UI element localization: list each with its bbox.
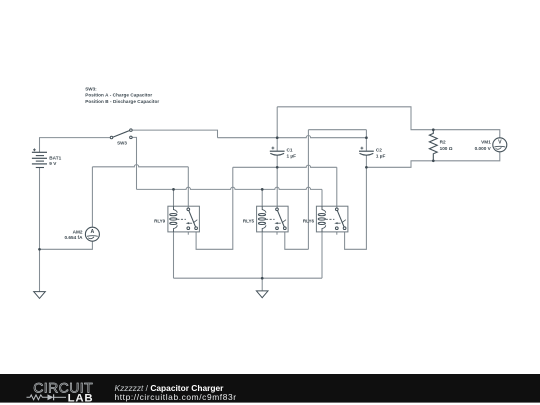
svg-text:Position A - Charge Capacitor: Position A - Charge Capacitor: [85, 93, 152, 98]
svg-text:VM1: VM1: [481, 140, 491, 145]
svg-text:V: V: [498, 140, 502, 146]
svg-text:0.000 V: 0.000 V: [475, 146, 492, 151]
svg-text:AM2: AM2: [73, 229, 83, 234]
svg-text:R2: R2: [440, 140, 446, 145]
svg-text:Position B - Discharge Capacit: Position B - Discharge Capacitor: [85, 99, 159, 104]
svg-text:RLY5: RLY5: [243, 218, 255, 223]
svg-text:1 µF: 1 µF: [376, 153, 386, 158]
svg-text:A: A: [91, 229, 95, 235]
svg-text:SW3:: SW3:: [85, 87, 97, 92]
svg-text:100 Ω: 100 Ω: [440, 146, 453, 151]
svg-text:LAB: LAB: [68, 392, 94, 404]
svg-text:SW3: SW3: [117, 141, 127, 146]
svg-text:1 µF: 1 µF: [287, 154, 297, 159]
svg-text:C2: C2: [376, 147, 382, 152]
svg-text:9 V: 9 V: [49, 161, 57, 166]
svg-text:0.654 fA: 0.654 fA: [65, 235, 84, 240]
svg-text:http://circuitlab.com/c9mf83r: http://circuitlab.com/c9mf83r: [115, 392, 237, 402]
svg-text:RLY6: RLY6: [303, 218, 315, 223]
svg-text:BAT1: BAT1: [49, 156, 61, 161]
svg-text:RLY9: RLY9: [154, 218, 166, 223]
svg-text:C1: C1: [287, 147, 293, 152]
